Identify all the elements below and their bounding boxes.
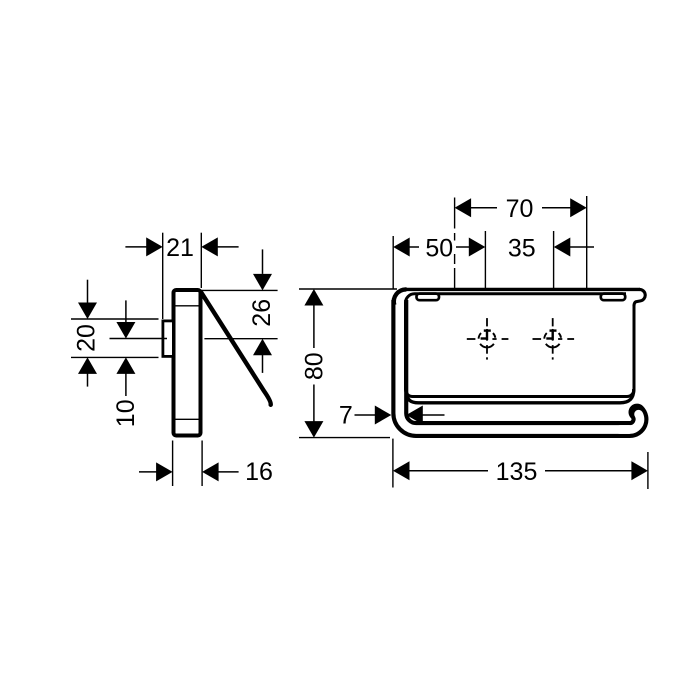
- arrowhead left, dim 70 left end: [455, 198, 472, 217]
- arrowhead down, dim 26 top: [253, 274, 272, 291]
- dim 21: [125, 233, 238, 319]
- extension line at x=393.2 (wire left edge): [392, 236, 394, 289]
- svg-text:7: 7: [339, 401, 353, 429]
- dim 80: [299, 289, 397, 438]
- extension line at x=553.6 (screw 2 axis): [553, 231, 555, 290]
- cap line bottom: [174, 418, 201, 420]
- dim 135: [393, 439, 648, 489]
- arrowhead right, dim 70 right end: [570, 198, 587, 217]
- svg-text:21: 21: [166, 234, 194, 262]
- arrowhead left, dim 21 right end: [201, 237, 218, 256]
- extension line at x=202.1: [201, 441, 203, 487]
- dim line y=319 (bump top): [71, 318, 159, 320]
- arrowhead up, dim 80 top: [304, 289, 323, 306]
- svg-text:80: 80: [300, 352, 328, 380]
- extension line at x=485.4 (screw 1 axis): [484, 231, 486, 290]
- svg-text:26: 26: [248, 299, 276, 327]
- arrowhead left, dim 16 right end: [202, 462, 219, 481]
- dim 26: [199, 249, 278, 373]
- svg-text:10: 10: [112, 399, 140, 427]
- dim 35: [508, 231, 594, 290]
- extension line at x=162.7: [162, 233, 164, 319]
- arrowhead left, dim 35 right end: [554, 238, 571, 257]
- plate side profile: [174, 290, 201, 436]
- arrowhead down, dim 80 bottom: [304, 421, 323, 438]
- clip left: [417, 294, 440, 301]
- wire band: left + bottom + hook (tube): [400, 297, 640, 430]
- dim 10: [110, 300, 168, 427]
- arrowhead up, dim 26 bottom: [253, 339, 272, 356]
- cap line top: [174, 305, 201, 307]
- svg-text:50: 50: [425, 234, 453, 262]
- svg-text:35: 35: [508, 234, 536, 262]
- arrowhead right, dim 21 left end: [146, 237, 163, 256]
- dim 7: [339, 401, 445, 429]
- dim line y=357.4 (bump bottom): [71, 356, 159, 358]
- wall mount bump: [163, 321, 174, 357]
- dim line y=437.6 (bottom of holder): [299, 437, 390, 439]
- center line y=338.5: [110, 338, 168, 340]
- arrowhead down, dim 10 top: [116, 322, 135, 339]
- arrowhead right, dim 16 left end: [156, 462, 173, 481]
- dim 50: [393, 231, 485, 290]
- flap (cover arm, side): [201, 293, 270, 405]
- screw mark 1: [467, 318, 509, 360]
- arrowhead left, dim 135 left end: [393, 461, 410, 480]
- extension line at x=172.6: [172, 441, 174, 487]
- dim line y=338.7 (flap level): [204, 338, 277, 340]
- dim line y=290.4 (plate top): [199, 289, 278, 291]
- screw mark 2: [533, 318, 575, 360]
- arrowhead right, dim 50 right end: [469, 238, 486, 257]
- extension line at x=454.6 (dashed past text row): [454, 198, 456, 229]
- extension line at x=201.3: [200, 233, 202, 288]
- svg-text:135: 135: [496, 458, 538, 486]
- cover plate front: [406, 294, 635, 403]
- svg-text:16: 16: [245, 458, 273, 486]
- dim 70: [455, 195, 587, 289]
- extension line at x=586.7: [586, 196, 588, 288]
- dim 16: [139, 441, 273, 487]
- arrowhead up, dim 10 bottom: [116, 357, 135, 374]
- arrowhead left, dim 50 left end: [393, 238, 410, 257]
- dim line y=289 (top of holder): [299, 288, 397, 290]
- clip right: [601, 294, 625, 301]
- arrowhead right at wire outer edge: [375, 406, 392, 425]
- extension line at x=647.9: [647, 452, 649, 489]
- arrowhead left at plate edge: [406, 406, 423, 425]
- svg-text:20: 20: [73, 324, 101, 352]
- extension line at x=392.9: [392, 439, 394, 488]
- wire band: top run with end curl: [394, 289, 645, 305]
- arrowhead right, dim 135 right end: [631, 461, 648, 480]
- arrowhead down, dim 20 top: [78, 303, 97, 320]
- dim 20: [71, 280, 159, 387]
- svg-text:70: 70: [506, 195, 534, 223]
- arrowhead up, dim 20 bottom: [78, 357, 97, 374]
